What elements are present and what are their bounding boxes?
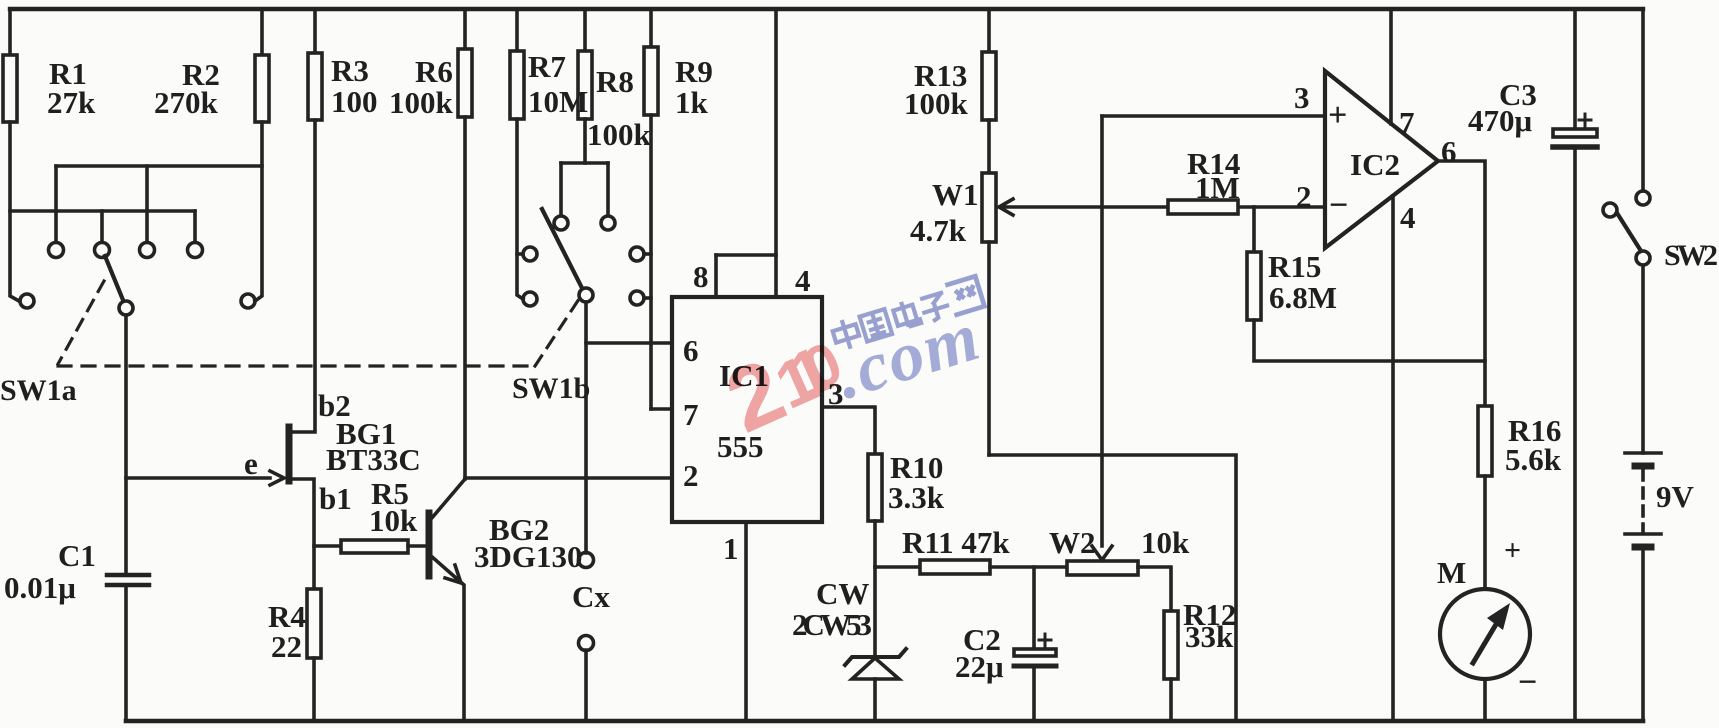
- potentiometer W2 body: [1067, 561, 1138, 575]
- wire C1 to ground rail: [124, 585, 128, 721]
- wire R15 top lead: [1252, 207, 1256, 252]
- wire R11 lead left: [875, 565, 920, 569]
- capacitor C2 plate top: [1014, 649, 1056, 656]
- wire R4 to ground rail: [312, 658, 316, 721]
- wire pin6 line: [586, 341, 672, 345]
- wire R11 to C2 node to W2: [990, 565, 1067, 569]
- svg-text:3DG130: 3DG130: [474, 539, 583, 574]
- resistor R9: [644, 47, 658, 115]
- svg-text:470μ: 470μ: [1468, 103, 1533, 138]
- resistor R14: [1168, 200, 1238, 214]
- node SW1a right outer contact: [241, 294, 255, 308]
- wire W1 bottom to ground drop: [989, 455, 1236, 721]
- battery B1 plate long top: [1625, 451, 1661, 455]
- svg-text:10M: 10M: [528, 84, 588, 119]
- svg-text:5.6k: 5.6k: [1505, 442, 1562, 477]
- wire BG1 b1 lead: [292, 479, 314, 589]
- svg-text:R15: R15: [1268, 249, 1321, 284]
- dashed mechanical link bar: [58, 364, 535, 367]
- resistor R11: [920, 560, 990, 574]
- transistor Q1 BG1 base bar: [286, 427, 293, 481]
- meter M needle: [1473, 621, 1498, 663]
- svg-text:+: +: [1504, 534, 1521, 567]
- wire stub contact 1: [54, 166, 58, 242]
- emitter arrowhead of BG1: [270, 471, 284, 485]
- svg-text:b2: b2: [318, 388, 351, 423]
- wire SW1a bus line lower: [10, 209, 195, 213]
- node SW1a pole: [119, 301, 133, 315]
- node Cx bottom terminal: [579, 636, 594, 651]
- wire bracket left drop: [559, 163, 563, 215]
- wire pin1 to ground rail: [744, 522, 748, 721]
- svg-text:SW1b: SW1b: [512, 372, 590, 405]
- wire stub right mid contact: [644, 252, 651, 256]
- wire emitter lead to BG1: [126, 476, 270, 480]
- battery B1 dashed middle: [1641, 470, 1645, 532]
- node SW2 top contact: [1636, 191, 1650, 205]
- capacitor C3 plate top: [1553, 129, 1597, 137]
- wire W1 wiper line to IC2 pin2: [1000, 205, 1325, 209]
- op-amp U2 IC2 triangle: [1325, 71, 1438, 248]
- wire R9 top column: [649, 9, 653, 47]
- svg-text:22μ: 22μ: [955, 649, 1004, 684]
- wire SW2 top lead: [1641, 9, 1645, 191]
- wire pin3 output stub: [822, 407, 875, 454]
- wire VCC drop to pin4: [774, 9, 778, 297]
- svg-text:7: 7: [683, 397, 699, 432]
- node SW2 bottom contact: [1636, 251, 1650, 265]
- wire SW2 to battery: [1641, 265, 1645, 453]
- wire IC2 pin4 to ground rail: [1391, 196, 1395, 721]
- wire SW1b top bracket: [561, 161, 608, 165]
- op-amp timer U1 IC1 555 box: [672, 297, 822, 522]
- svg-text:1M: 1M: [1195, 170, 1240, 205]
- wire R1 bottom column: [10, 122, 19, 301]
- transistor Q2 BG2 base bar: [426, 513, 433, 576]
- svg-text:+: +: [1328, 97, 1347, 134]
- svg-text:R11 47k: R11 47k: [902, 525, 1010, 560]
- svg-text:R8: R8: [596, 64, 634, 99]
- battery B1 plate short bottom: [1635, 544, 1651, 551]
- resistor R4: [307, 589, 321, 658]
- wire C3 top lead: [1573, 9, 1577, 130]
- wire stub right lower contact: [644, 296, 651, 300]
- wire R5 lead left: [314, 544, 341, 548]
- resistor R2: [255, 55, 269, 122]
- wire Cx bottom to ground rail: [584, 650, 588, 721]
- resistor R16: [1478, 406, 1492, 476]
- svg-text:100k: 100k: [904, 86, 969, 121]
- svg-text:R9: R9: [675, 54, 713, 89]
- svg-text:b1: b1: [319, 481, 352, 516]
- svg-text:100: 100: [331, 84, 378, 119]
- svg-text:BT33C: BT33C: [326, 442, 421, 477]
- svg-text:W2: W2: [1049, 525, 1096, 560]
- wire R3 down to BG1 b2: [292, 120, 315, 432]
- resistor R13: [982, 52, 996, 120]
- wire R8 down to bracket: [583, 119, 587, 163]
- node Cx top terminal: [579, 553, 594, 568]
- switch SW2 lever: [1617, 213, 1641, 251]
- capacitor C2 plate bottom: [1014, 664, 1056, 669]
- svg-text:4.7k: 4.7k: [910, 213, 967, 248]
- wire zener to ground rail: [873, 679, 877, 721]
- wire R2 top column: [260, 9, 264, 55]
- wire R3 top column: [313, 9, 317, 53]
- wire R5 lead right to BG2 base: [408, 544, 425, 548]
- wire C2 top lead: [1032, 567, 1036, 649]
- node SW2 side contact: [1603, 203, 1617, 217]
- svg-text:1: 1: [723, 531, 739, 566]
- switch SW1a lever: [105, 256, 123, 300]
- svg-text:SW1a: SW1a: [0, 374, 77, 407]
- svg-text:2CW53: 2CW53: [792, 607, 872, 642]
- wire R10 bottom: [873, 521, 877, 567]
- wire zener CW top lead: [873, 567, 877, 656]
- svg-text:M: M: [1437, 555, 1466, 590]
- battery B1 plate long bottom: [1625, 532, 1661, 536]
- wire R6 down to collector node: [463, 117, 467, 479]
- emitter arrowhead of BG2: [445, 565, 461, 583]
- dashed mechanical link SW1b: [535, 299, 579, 366]
- svg-text:1k: 1k: [675, 85, 709, 120]
- svg-text:IC2: IC2: [1350, 147, 1400, 182]
- svg-text:4: 4: [795, 263, 811, 298]
- meter M needle arrowhead: [1487, 603, 1510, 630]
- resistor R10: [868, 454, 882, 521]
- battery B1 plate short top: [1635, 463, 1651, 470]
- wire R13 to W1: [987, 120, 991, 173]
- svg-text:3.3k: 3.3k: [888, 480, 945, 515]
- svg-text:SW2: SW2: [1664, 239, 1718, 272]
- svg-text:4: 4: [1400, 200, 1416, 235]
- node SW1b pole: [579, 288, 593, 302]
- capacitor C2 polarity plus: [1039, 634, 1051, 646]
- wire R7 top column: [515, 9, 519, 51]
- svg-text:−: −: [1329, 187, 1348, 224]
- node SW1a contact 2: [95, 243, 110, 258]
- resistor R5: [341, 540, 408, 553]
- wire stub contact 4: [193, 211, 197, 242]
- node SW1b right mid contact: [630, 247, 644, 261]
- capacitor C3 polarity plus: [1579, 114, 1591, 126]
- diode CW zener triangle: [852, 658, 899, 679]
- wire bracket right drop: [606, 163, 610, 215]
- node SW1a contact 3: [140, 243, 155, 258]
- wire SW1b pole down to Cx: [584, 302, 588, 553]
- meter M body: [1440, 589, 1530, 679]
- resistor R12: [1164, 611, 1178, 679]
- resistor R1: [3, 55, 17, 122]
- svg-text:9V: 9V: [1656, 479, 1695, 514]
- wire bottom ground rail: [126, 719, 1643, 724]
- potentiometer W2 wiper arrow: [1092, 546, 1112, 560]
- svg-text:CW: CW: [816, 576, 869, 611]
- resistor R6: [458, 49, 472, 117]
- svg-text:10k: 10k: [1141, 525, 1190, 560]
- wire left column from rail to R1: [8, 9, 12, 55]
- wire R8 top column: [583, 9, 587, 51]
- svg-text:.com: .com: [827, 298, 989, 414]
- wire battery to ground rail: [1641, 549, 1645, 721]
- wire C2 to ground rail: [1032, 666, 1036, 721]
- wire SW1a bus line upper: [56, 164, 262, 168]
- svg-text:R6: R6: [415, 54, 453, 89]
- svg-text:100k: 100k: [389, 85, 454, 120]
- capacitor C1 plate bottom: [107, 583, 149, 588]
- wire meter to ground rail: [1483, 679, 1487, 721]
- wire stub contact 2: [100, 211, 104, 242]
- node SW1b left mid contact: [523, 247, 537, 261]
- watermark 2110 red text: [712, 314, 858, 452]
- wire pin7 stub: [651, 407, 672, 411]
- wire top supply rail: [10, 7, 1643, 11]
- capacitor C1 plate top: [107, 573, 149, 578]
- svg-text:7: 7: [1399, 105, 1415, 140]
- wire R2 bottom column: [255, 122, 262, 301]
- svg-text:3: 3: [1294, 80, 1310, 115]
- svg-text:C1: C1: [58, 538, 96, 573]
- svg-text:270k: 270k: [154, 85, 219, 120]
- wire pin8 stub: [714, 255, 718, 297]
- svg-text:22: 22: [271, 629, 302, 664]
- wire IC2 output pin6: [1438, 161, 1485, 406]
- svg-text:2: 2: [1296, 179, 1312, 214]
- svg-text:0.01μ: 0.01μ: [4, 570, 76, 605]
- diode CW zener cathode bar: [845, 649, 906, 665]
- resistor R7: [510, 51, 524, 119]
- potentiometer W1 body: [982, 173, 996, 242]
- svg-text:6: 6: [1441, 134, 1457, 169]
- wire BG2 collector diagonal: [431, 479, 465, 519]
- watermark chinese characters: [829, 276, 984, 352]
- wire IC2 pin7 to top rail: [1389, 9, 1393, 124]
- wire pin8-pin4 bracket: [716, 253, 776, 257]
- wire R15 bottom feedback line: [1254, 320, 1485, 361]
- capacitor C3 plate bottom: [1553, 144, 1597, 150]
- resistor R3: [308, 53, 322, 120]
- wire R16 to meter: [1483, 476, 1487, 589]
- svg-text:6: 6: [683, 333, 699, 368]
- svg-text:2: 2: [683, 458, 699, 493]
- wire stub contact 3: [145, 166, 149, 242]
- svg-text:−: −: [1518, 664, 1537, 701]
- node SW1b right lower contact: [630, 291, 644, 305]
- wire trigger line to IC1 pin2: [465, 476, 672, 480]
- wire R6 top column: [463, 9, 467, 49]
- svg-text:6.8M: 6.8M: [1269, 280, 1337, 315]
- wire R7 down to SW1b contacts: [517, 119, 523, 299]
- wire R12 to ground rail: [1169, 679, 1173, 721]
- node SW1b left lower contact: [523, 292, 537, 306]
- node SW1a contact 4: [188, 243, 203, 258]
- wire R13 top column: [987, 9, 991, 52]
- wire C3 to ground rail: [1573, 147, 1577, 721]
- svg-text:100k: 100k: [587, 117, 652, 152]
- node SW1b top right contact: [601, 216, 615, 230]
- svg-text:27k: 27k: [47, 85, 96, 120]
- potentiometer W1 wiper arrow: [999, 199, 1013, 215]
- wire stub SW1b left mid contact: [517, 252, 523, 256]
- resistor R15: [1247, 252, 1261, 320]
- wire W2 right lead: [1138, 567, 1171, 611]
- node SW1a left outer contact: [20, 294, 34, 308]
- wire R9 down to pin7 line: [649, 115, 653, 409]
- node SW1b top left contact: [554, 216, 568, 230]
- svg-text:e: e: [244, 446, 258, 481]
- node SW1a contact 1: [49, 243, 64, 258]
- svg-text:R7: R7: [528, 49, 566, 84]
- svg-text:33k: 33k: [1185, 619, 1234, 654]
- resistor R8: [578, 51, 592, 119]
- wire BG2 emitter diagonal: [431, 556, 464, 721]
- wire W1 bottom column: [987, 242, 991, 455]
- wire W2 wiper column: [1100, 116, 1104, 546]
- switch SW1b lever: [542, 209, 582, 288]
- svg-text:8: 8: [693, 259, 709, 294]
- svg-text:10k: 10k: [369, 503, 418, 538]
- svg-text:W1: W1: [932, 177, 979, 212]
- wire SW1a pole down to C1 and emitter node: [124, 315, 128, 575]
- svg-text:R3: R3: [331, 53, 369, 88]
- dashed mechanical link SW1a: [58, 281, 104, 364]
- wire IC2 pin3 line: [1102, 114, 1325, 118]
- svg-text:Cx: Cx: [572, 579, 610, 614]
